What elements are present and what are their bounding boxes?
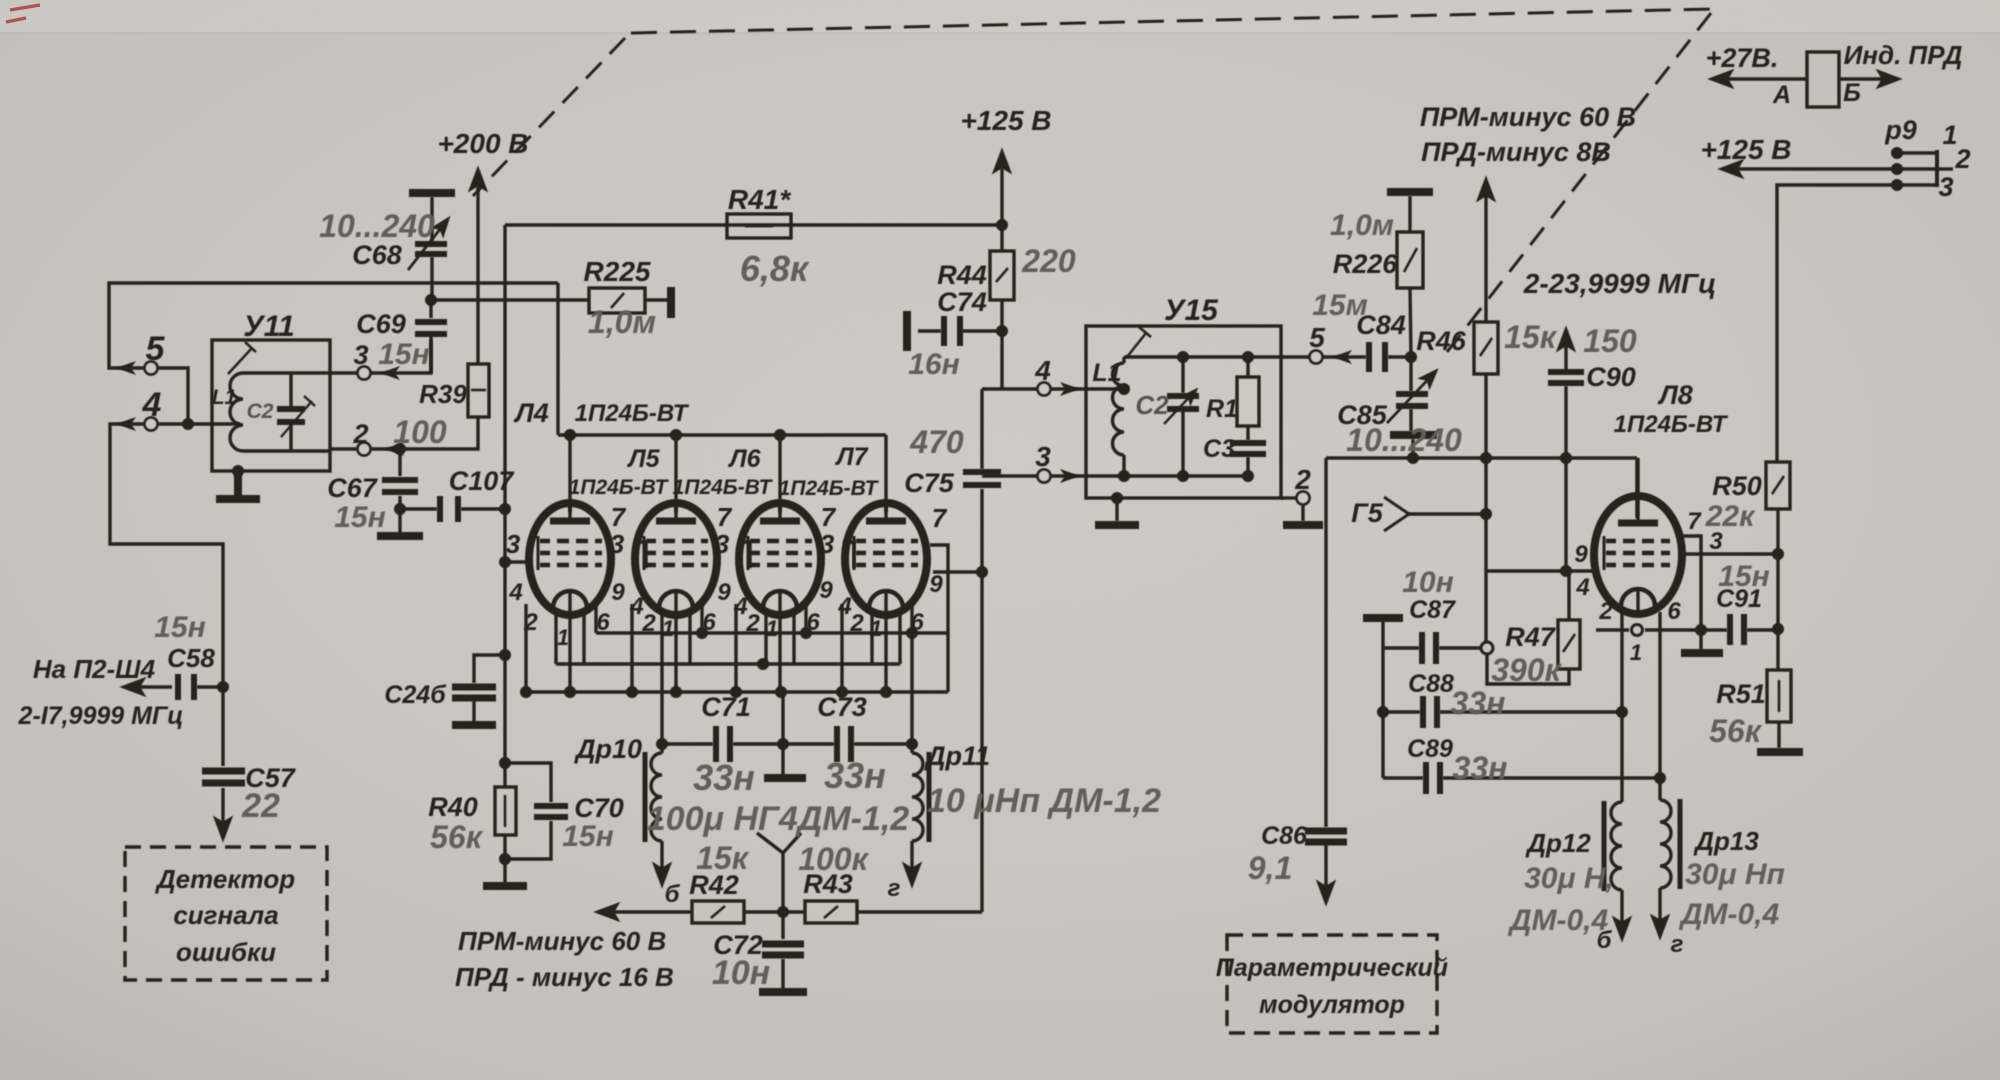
svg-text:R46: R46 (1416, 326, 1467, 356)
wire U15 R1 top lead (1246, 357, 1249, 377)
wire L5 grid3 staple (739, 542, 750, 568)
wire bus2 to R225 (431, 298, 589, 301)
svg-text:2-І7,9999 МГц: 2-І7,9999 МГц (18, 702, 184, 730)
svg-text:1,0м: 1,0м (1330, 209, 1394, 242)
wire Y stem (781, 853, 784, 912)
wire C88 line right (1440, 710, 1622, 713)
wire anode lead L6 (778, 435, 781, 512)
wire R42 to R43 (744, 910, 805, 913)
node (906, 627, 918, 639)
node (906, 738, 918, 750)
terminal (1310, 351, 1323, 364)
svg-text:Др11: Др11 (924, 741, 990, 771)
wire R44 to C74 node (1000, 300, 1003, 389)
svg-text:сигнала: сигнала (173, 900, 278, 930)
wire C87 to circle (1439, 646, 1481, 649)
svg-text:2: 2 (745, 610, 760, 637)
svg-text:R50: R50 (1712, 471, 1762, 501)
capacitor C75 plates (963, 472, 1001, 485)
wire L7 pin9 to C75 vertical (933, 570, 982, 573)
svg-text:9,1: 9,1 (1248, 850, 1292, 886)
ground R40 (483, 882, 527, 890)
arrow +200V (476, 170, 479, 186)
tube L6 (739, 503, 821, 615)
capacitor C90 plates (1548, 372, 1584, 383)
wire C91 right lead (1747, 628, 1778, 631)
node (1480, 452, 1492, 464)
wire P9 pin1 stub (1897, 151, 1937, 154)
capacitor C73 plates (837, 726, 851, 762)
wire C74 left to terminator (918, 329, 941, 332)
wire C89 line right (1443, 776, 1660, 779)
wire C84 to node (1388, 355, 1411, 358)
wire R43 to C75 riser (857, 910, 982, 913)
wire G5 to node (1409, 512, 1486, 515)
wire C86 branch vertical (1324, 458, 1327, 827)
svg-text:3: 3 (715, 529, 730, 559)
ground U15 terminal2 (1283, 521, 1323, 529)
inductor Dr11 (912, 753, 923, 841)
svg-text:2: 2 (1294, 464, 1311, 495)
wire C71 line left (662, 742, 713, 745)
core bar Dr10 (643, 752, 648, 842)
ground C67 (377, 532, 423, 540)
wire L6 pin4 column (734, 604, 737, 692)
capacitor C84 plates (1369, 342, 1385, 372)
svg-text:1П24Б-ВТ: 1П24Б-ВТ (575, 400, 690, 427)
tube L5 (635, 503, 717, 615)
capacitor C91 plates (1730, 614, 1744, 645)
capacitor C57 plates (202, 771, 245, 783)
node (996, 325, 1008, 337)
wire anode lead L4 (568, 435, 571, 512)
node (1480, 508, 1492, 520)
svg-text:6,8к: 6,8к (740, 248, 810, 289)
inductor L1 (U11) (230, 373, 243, 451)
svg-text:R40: R40 (428, 792, 478, 822)
wire anode lead L5 (674, 435, 677, 512)
wire U15 terminal2 ground stem (1301, 505, 1304, 521)
wire C91 ground stem (1699, 630, 1702, 650)
svg-text:ПРМ-минус 60 В: ПРМ-минус 60 В (1420, 102, 1636, 132)
svg-text:С58: С58 (167, 643, 215, 673)
svg-text:470: 470 (909, 424, 964, 460)
node (696, 627, 708, 639)
wire R50 to pin3 node (1776, 509, 1779, 554)
terminator bar C87 common (1363, 614, 1403, 622)
svg-text:10н: 10н (1402, 566, 1454, 599)
wire L6 grid3 staple (843, 542, 854, 568)
resistor R1 (U15) (1237, 377, 1259, 426)
svg-text:р9: р9 (1884, 115, 1917, 145)
wire L1 top stem (1122, 357, 1125, 363)
arrowhead (380, 366, 400, 380)
node (425, 294, 437, 306)
ground C91 (1681, 649, 1723, 657)
svg-text:10н: 10н (712, 954, 770, 992)
svg-text:Др12: Др12 (1525, 828, 1591, 858)
wire C88 line left (1383, 710, 1420, 713)
wire C90 stem to grid bus (1564, 386, 1567, 458)
inductor Dr10 (651, 753, 662, 841)
terminator bar after R225 (667, 287, 675, 318)
wire terminal5 to node (158, 368, 188, 424)
svg-text:15н: 15н (154, 611, 206, 644)
svg-text:б: б (665, 881, 681, 908)
wire C57 to detector arrow (221, 788, 224, 838)
core bar Dr13 (1678, 799, 1683, 889)
wire R47 top stem (1567, 571, 1570, 620)
inductor Dr12 (1611, 802, 1622, 890)
wire terminal5 to C84 (1323, 355, 1366, 358)
chassis boundary dashed diagonal right to C85 (1447, 13, 1711, 352)
svg-text:С91: С91 (1716, 585, 1762, 613)
wire pin3 to +125 rail down (1777, 185, 1897, 462)
node (836, 686, 848, 698)
svg-text:1П24Б-ВТ: 1П24Б-ВТ (779, 477, 880, 500)
svg-text:4: 4 (142, 386, 162, 424)
wire vertical screen feed x505 (503, 225, 506, 763)
svg-text:6: 6 (910, 609, 924, 636)
terminal (358, 367, 371, 380)
svg-text:ПРД-минус 8В: ПРД-минус 8В (1421, 137, 1611, 167)
svg-text:10...240: 10...240 (319, 208, 435, 244)
svg-text:1: 1 (557, 625, 569, 650)
capacitor C2 (U11) plates (277, 409, 305, 422)
svg-text:3: 3 (1709, 528, 1723, 555)
wire P9 pin2 stub (1897, 167, 1937, 170)
svg-text:R51: R51 (1716, 679, 1766, 709)
svg-text:1,0м: 1,0м (588, 304, 656, 340)
svg-text:1П24Б-ВТ: 1П24Б-ВТ (673, 476, 774, 499)
wire L6 cathode stem (778, 592, 781, 692)
svg-text:Л7: Л7 (834, 443, 868, 471)
wire L5 right leg (688, 610, 691, 664)
svg-text:У15: У15 (1164, 294, 1219, 327)
wire filament row (556, 662, 900, 665)
node (1377, 706, 1389, 718)
arrowhead (116, 361, 136, 375)
node (774, 429, 786, 441)
wire C90 node down to pin9 line (1564, 458, 1567, 571)
wire +27V arrow left (1712, 77, 1807, 80)
capacitor C246 plates (452, 687, 496, 698)
svg-text:9: 9 (717, 579, 731, 606)
wire U11 pin2 line (330, 447, 357, 450)
wire C58 node to C57 (221, 687, 224, 766)
wire U15 C2 stem bottom (1181, 411, 1184, 476)
node (564, 429, 576, 441)
svg-text:3: 3 (820, 529, 835, 559)
wire U15 terminal2 stub (1281, 496, 1296, 499)
svg-text:С86: С86 (1261, 822, 1308, 850)
wire below C87 circle to R47 return (1487, 654, 1569, 684)
capacitor C72 plates (762, 944, 804, 955)
svg-text:4: 4 (1034, 355, 1051, 386)
wire P9 pin2 tail (1937, 167, 1953, 170)
svg-text:С89: С89 (1407, 735, 1453, 763)
generator G5 chevron (1384, 497, 1409, 531)
node (1242, 470, 1254, 482)
wire L7 left leg (870, 610, 873, 664)
capacitor C67 plates (382, 480, 418, 492)
node (1405, 351, 1417, 363)
svg-text:У11: У11 (243, 310, 294, 343)
wire node to C85 (1409, 357, 1412, 391)
svg-text:1П24Б-ВТ: 1П24Б-ВТ (1614, 411, 1729, 438)
wire R46 bottom to G5 node (1484, 374, 1487, 642)
node (217, 681, 229, 693)
svg-text:+27В.: +27В. (1706, 43, 1779, 73)
wire P9 link bar (1935, 150, 1939, 187)
svg-text:+125 В: +125 В (1700, 134, 1791, 165)
svg-text:33н: 33н (1451, 685, 1506, 721)
wire C87 line from common vertical (1383, 646, 1419, 649)
resistor R225 (589, 288, 645, 313)
resistor R40 (495, 787, 516, 835)
wire to U15 terminal 4 (982, 387, 1037, 390)
wire L5 left leg to Dr10 (660, 610, 663, 744)
svg-text:2: 2 (641, 610, 656, 637)
capacitor C2 (U15) plates (1167, 396, 1199, 409)
svg-text:С24б: С24б (384, 681, 447, 709)
node (880, 686, 892, 698)
capacitor C107 plates (440, 496, 458, 522)
wire P9 pin3 stub (1897, 183, 1937, 186)
node (520, 686, 532, 698)
wire L8 pin1 line left (1596, 628, 1629, 631)
wire Dr10 bottom arrow (660, 841, 663, 884)
svg-text:7: 7 (717, 502, 733, 532)
svg-text:30μ Нп: 30μ Нп (1685, 858, 1785, 891)
svg-text:9: 9 (1574, 541, 1588, 568)
wire U11 tank top (243, 371, 330, 374)
svg-text:6: 6 (806, 609, 820, 636)
svg-text:10...240: 10...240 (1346, 422, 1462, 458)
wire Dr11 stem top (910, 744, 913, 753)
wire C58 arrow out (124, 685, 172, 688)
wire common vertical with top bar (1381, 621, 1384, 778)
ground U15 left (1095, 521, 1139, 529)
svg-text:1П24Б-ВТ: 1П24Б-ВТ (569, 476, 670, 499)
capacitor C74 plates (944, 316, 960, 346)
tube L8 (1594, 496, 1682, 614)
wire Ind PRD arrow right (1839, 77, 1898, 80)
core bar Dr11 (927, 752, 932, 842)
wire L7 pin3 staple (930, 545, 948, 692)
chassis bar center node (764, 774, 806, 782)
svg-text:Инд. ПРД: Инд. ПРД (1844, 40, 1963, 70)
svg-text:R225: R225 (584, 256, 651, 287)
wire C69 bottom stem (429, 336, 432, 373)
svg-text:100μ НГ4ДМ-1,2: 100μ НГ4ДМ-1,2 (647, 800, 910, 838)
node (1177, 351, 1189, 363)
svg-text:2-23,9999 МГц: 2-23,9999 МГц (1523, 268, 1717, 299)
wire R225 to terminator (645, 298, 670, 301)
svg-text:ДМ-0,4: ДМ-0,4 (1678, 898, 1780, 931)
svg-text:33н: 33н (693, 757, 755, 798)
svg-text:33н: 33н (1453, 750, 1508, 786)
node (1118, 470, 1130, 482)
wire L5 pin6 column (700, 604, 703, 633)
svg-text:2: 2 (1598, 598, 1613, 625)
node (232, 465, 244, 477)
detector box dashed (125, 847, 327, 980)
wire C91 node to R51 (1776, 629, 1779, 670)
svg-text:модулятор: модулятор (1259, 991, 1405, 1019)
svg-text:R44: R44 (937, 260, 987, 290)
capacitor C68 plates (415, 244, 447, 254)
capacitor C70 plates (534, 806, 568, 817)
wire C86 to modulator arrow (1324, 845, 1327, 902)
svg-text:390к: 390к (1491, 652, 1562, 688)
svg-text:7: 7 (1687, 508, 1702, 535)
svg-text:5: 5 (146, 330, 166, 368)
wire L8 pin3 to R50 node (1684, 552, 1778, 555)
wire U15 term4 inside (1051, 387, 1124, 390)
wire C67 node to ground (398, 509, 401, 533)
svg-text:220: 220 (1021, 243, 1076, 279)
wire L6 pin6 column (804, 604, 807, 633)
node (499, 556, 511, 568)
wire R46 arrow up (1484, 180, 1487, 322)
arrowhead (1332, 350, 1352, 364)
wire L7 pin6 column to Dr11 (910, 604, 913, 744)
wire pin9 line L8 (1487, 569, 1596, 572)
svg-text:R41*: R41* (728, 184, 791, 215)
svg-text:3: 3 (353, 340, 368, 370)
node (757, 658, 769, 670)
node (1654, 772, 1666, 784)
svg-text:Л5: Л5 (626, 445, 660, 473)
node (1560, 452, 1572, 464)
node (182, 418, 194, 430)
svg-text:1: 1 (1630, 640, 1642, 665)
capacitor C85 rotor bar (1390, 431, 1437, 439)
chassis boundary dashed diagonal left to C68 (473, 38, 625, 196)
trimmer arrow L1 (U15) (1127, 327, 1151, 357)
svg-text:ошибки: ошибки (176, 937, 276, 967)
wire L5 cathode stem (674, 592, 677, 692)
wire Y junction symbol (757, 833, 801, 853)
node (1242, 351, 1254, 363)
wire Dr13 bottom arrow (1658, 888, 1661, 936)
resistor R41 (727, 214, 791, 238)
svg-text:На П2-Ш4: На П2-Ш4 (33, 654, 156, 684)
svg-text:15н: 15н (334, 501, 386, 534)
svg-text:С67: С67 (327, 473, 379, 503)
svg-text:Л4: Л4 (513, 398, 549, 428)
terminal (145, 362, 158, 375)
arrowhead (1060, 469, 1080, 483)
svg-text:15н: 15н (562, 820, 614, 853)
svg-text:3: 3 (610, 529, 625, 559)
svg-text:15к: 15к (1504, 319, 1558, 355)
capacitor C2 (U11) stems (289, 373, 292, 451)
svg-text:Г5: Г5 (1351, 498, 1384, 528)
resistor R46 (1474, 322, 1498, 374)
wire +125V rail arrow (1722, 167, 1893, 170)
svg-text:Б: Б (1843, 79, 1861, 107)
wire C58 node line (197, 685, 223, 688)
svg-text:9: 9 (929, 571, 943, 598)
svg-text:2: 2 (849, 610, 864, 637)
svg-text:ПРМ-минус 60 В: ПРМ-минус 60 В (458, 926, 666, 956)
red pen marks top-left corner (6, 5, 40, 22)
svg-text:С88: С88 (1408, 670, 1454, 698)
wire U15 tank top (1124, 355, 1309, 358)
terminal (358, 443, 371, 456)
svg-text:10 μНп ДМ-1,2: 10 μНп ДМ-1,2 (927, 782, 1161, 820)
svg-text:6: 6 (596, 609, 610, 636)
node (499, 853, 511, 865)
wire to U15 terminal 3 (982, 474, 1037, 477)
wire R226 bottom to node (1410, 288, 1411, 357)
wire C68 stem lower to junction (430, 257, 433, 300)
wire center node up to cathode bus (781, 692, 784, 744)
wire U15 term3 inside (1051, 474, 1124, 477)
svg-text:R1: R1 (1206, 395, 1238, 423)
node (800, 627, 812, 639)
pin1 circle L8 (1632, 625, 1643, 636)
wire R40 top stem (503, 763, 506, 787)
node (777, 906, 789, 918)
terminal (1038, 470, 1051, 483)
svg-text:150: 150 (1583, 323, 1637, 359)
resistor R51 (1767, 670, 1791, 722)
wire L7 pin4 column (840, 604, 843, 692)
wire L8 pin6 down to Dr13 (1658, 612, 1661, 800)
svg-text:С74: С74 (937, 287, 987, 317)
svg-text:56к: 56к (1709, 713, 1763, 749)
svg-text:3: 3 (506, 529, 521, 559)
wire U11 tank bottom (243, 449, 330, 452)
node (730, 686, 742, 698)
wire C67 branch down from node (398, 449, 401, 476)
svg-text:С87: С87 (1409, 596, 1456, 624)
wire L4 pin6 column (594, 604, 597, 633)
capacitor C85 variable arrow (1387, 371, 1436, 423)
wire C71 to center node (733, 742, 834, 745)
wire Dr10 stem top (660, 744, 663, 753)
capacitor C88 plates (1423, 696, 1437, 728)
svg-text:С69: С69 (356, 309, 406, 339)
svg-text:6: 6 (702, 609, 716, 636)
capacitor C71 plates (716, 726, 730, 762)
svg-text:С71: С71 (701, 692, 751, 722)
capacitor C89 plates (1426, 762, 1440, 794)
capacitor C3 (U15) plates (1230, 443, 1266, 454)
svg-text:А: А (1772, 81, 1791, 109)
capacitor C2 (U11) trimmer arrow (281, 396, 315, 437)
wire C72 stem (781, 912, 784, 939)
wire C70 parallel loop (505, 763, 551, 802)
junction circle C87 node (1481, 642, 1493, 654)
connector A/B rect (1807, 52, 1839, 107)
wire C89 line left (1383, 776, 1423, 779)
svg-text:Параметрический: Параметрический (1216, 954, 1448, 982)
svg-text:R39: R39 (419, 379, 467, 409)
wire C85 to grid bus (1411, 439, 1414, 458)
node (996, 219, 1008, 231)
capacitor C85 plates (1396, 394, 1428, 406)
capacitor C87 plates (1422, 632, 1436, 664)
resistor R50 (1766, 462, 1790, 509)
wire L8 pin7 staple (1678, 536, 1701, 629)
svg-text:100: 100 (393, 414, 447, 450)
terminal (1038, 383, 1051, 396)
wire L4 cathode stem (568, 592, 571, 692)
